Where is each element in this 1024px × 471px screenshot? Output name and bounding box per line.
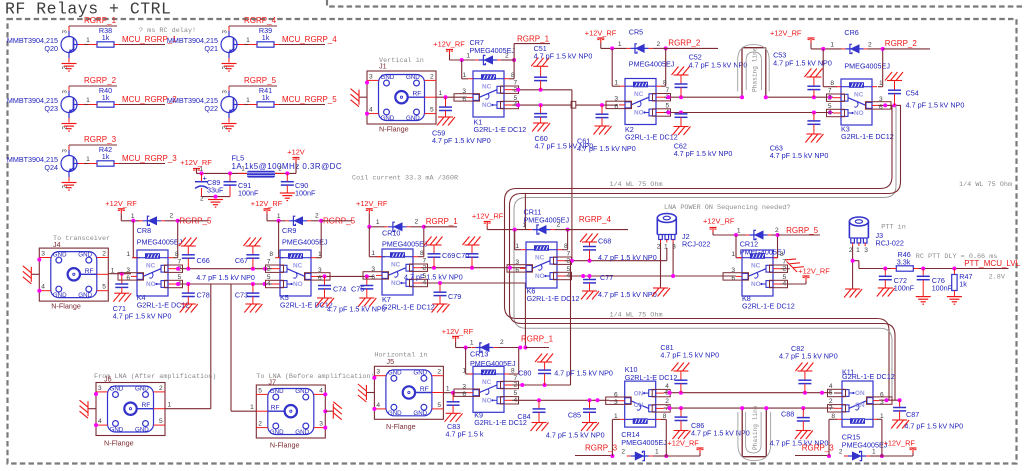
svg-text:5: 5 bbox=[159, 418, 163, 425]
svg-text:ON: ON bbox=[855, 402, 865, 409]
junction bbox=[460, 58, 464, 62]
svg-text:4.7 pF 1.5 kV NP0: 4.7 pF 1.5 kV NP0 bbox=[534, 52, 593, 61]
wire K10 NO to K11 bbox=[664, 392, 832, 394]
wire CR11 to K6 coil bbox=[515, 230, 568, 250]
ground bbox=[222, 64, 237, 72]
svg-text:RF: RF bbox=[85, 268, 94, 275]
junction bbox=[588, 259, 592, 263]
net label RGRP_3 bbox=[795, 444, 834, 456]
svg-text:4.7 pF 1.5 kV NP0: 4.7 pF 1.5 kV NP0 bbox=[554, 369, 613, 378]
svg-text:4.7 pF 1.5 kV NP0: 4.7 pF 1.5 kV NP0 bbox=[904, 422, 963, 431]
svg-text:PMEG4005EJ: PMEG4005EJ bbox=[382, 240, 428, 249]
svg-text:C70: C70 bbox=[456, 251, 469, 260]
diode CR10 bbox=[376, 219, 428, 249]
svg-text:2: 2 bbox=[657, 41, 661, 48]
svg-text:5: 5 bbox=[258, 387, 262, 394]
svg-text:GND: GND bbox=[381, 74, 395, 81]
capacitor C67 bbox=[235, 238, 262, 269]
svg-text:1: 1 bbox=[515, 243, 519, 250]
wire K5 common to K7 bbox=[317, 275, 374, 277]
svg-text:1: 1 bbox=[86, 37, 90, 44]
wire RGRP_1 row1 bbox=[514, 44, 550, 60]
resistor R46 bbox=[891, 250, 919, 271]
svg-text:+12V_RF: +12V_RF bbox=[884, 439, 916, 448]
relay K4 bbox=[118, 250, 189, 310]
title: RF Relays + CTRL bbox=[5, 0, 171, 19]
diode CR9 bbox=[277, 213, 328, 247]
relay K2 bbox=[606, 79, 678, 142]
junction bbox=[898, 398, 902, 402]
wire K6 NC to J2 bbox=[565, 248, 667, 261]
svg-text:NO: NO bbox=[146, 281, 156, 288]
relay K5 bbox=[266, 250, 333, 310]
svg-text:NC: NC bbox=[482, 84, 492, 91]
svg-text:GND: GND bbox=[388, 370, 402, 377]
ground bbox=[532, 123, 550, 132]
junction bbox=[539, 103, 543, 107]
wire CR9 to K5 coil bbox=[279, 221, 322, 258]
note: Vertical in bbox=[379, 57, 424, 65]
net label RGRP_3 bbox=[575, 444, 618, 456]
power flag +12V_RF bbox=[667, 439, 703, 454]
svg-text:4: 4 bbox=[319, 387, 323, 394]
ground bbox=[437, 117, 455, 126]
svg-text:3: 3 bbox=[371, 266, 375, 273]
svg-text:2: 2 bbox=[415, 219, 419, 226]
relay K8 bbox=[723, 250, 795, 311]
net label RGRP_1 bbox=[517, 35, 550, 44]
svg-text:4.7 pF 1.5 kV NP0: 4.7 pF 1.5 kV NP0 bbox=[598, 290, 657, 299]
junction bbox=[734, 233, 738, 237]
wire J6 RF up bbox=[165, 408, 211, 410]
net label MCU_RGRP_2 bbox=[122, 95, 177, 104]
power flag +12V_RF bbox=[884, 439, 917, 454]
junction bbox=[596, 398, 600, 402]
net label RGRP_5 bbox=[778, 226, 821, 235]
svg-text:C68: C68 bbox=[598, 237, 611, 246]
junction bbox=[228, 171, 232, 175]
svg-text:6: 6 bbox=[731, 275, 735, 282]
svg-text:1: 1 bbox=[86, 156, 90, 163]
net label RGRP_2 bbox=[883, 39, 930, 49]
svg-text:C79: C79 bbox=[448, 292, 461, 301]
svg-text:NC: NC bbox=[482, 379, 492, 386]
svg-text:8: 8 bbox=[511, 368, 515, 375]
svg-text:CR6: CR6 bbox=[844, 28, 858, 37]
svg-text:GND: GND bbox=[78, 251, 92, 258]
junction bbox=[893, 103, 897, 107]
svg-text:ON: ON bbox=[634, 402, 644, 409]
junction bbox=[319, 219, 323, 223]
wire K7 NO down to row3 bbox=[421, 283, 525, 348]
junction bbox=[176, 282, 180, 286]
net label RGRP_5 bbox=[178, 217, 212, 226]
svg-text:CR10: CR10 bbox=[382, 229, 400, 238]
svg-text:1: 1 bbox=[664, 244, 668, 251]
svg-text:6: 6 bbox=[515, 267, 519, 274]
svg-text:1: 1 bbox=[199, 166, 203, 173]
svg-text:1: 1 bbox=[126, 251, 130, 258]
note: PTT in bbox=[881, 224, 905, 232]
svg-text:2: 2 bbox=[267, 265, 271, 272]
svg-text:+12V_RF: +12V_RF bbox=[798, 267, 830, 276]
wire base bbox=[84, 156, 90, 164]
note: Phasing line (vertical) bbox=[752, 405, 759, 450]
power flag +12V_RF bbox=[433, 40, 465, 55]
junction bbox=[176, 219, 180, 223]
svg-text:1: 1 bbox=[731, 251, 735, 258]
svg-text:2: 2 bbox=[839, 449, 843, 456]
svg-text:6: 6 bbox=[462, 96, 466, 103]
junction bbox=[610, 46, 614, 50]
svg-text:GND: GND bbox=[53, 292, 67, 299]
svg-text:1: 1 bbox=[376, 219, 380, 226]
svg-text:1/4 WL 75 Ohm: 1/4 WL 75 Ohm bbox=[959, 181, 1012, 189]
svg-text:NO: NO bbox=[482, 102, 492, 109]
ground bbox=[316, 298, 334, 307]
svg-text:2: 2 bbox=[159, 385, 163, 392]
note: 1/4 WL 75 Ohm bbox=[610, 181, 663, 189]
svg-text:3: 3 bbox=[222, 90, 229, 94]
svg-text:? ms RC delay!: ? ms RC delay! bbox=[139, 27, 196, 35]
svg-text:NO: NO bbox=[751, 281, 761, 288]
wire K9 NO to K10 common bbox=[512, 399, 609, 401]
capacitor C61 bbox=[577, 105, 636, 153]
svg-text:1: 1 bbox=[371, 250, 375, 257]
relay K10 bbox=[606, 365, 678, 427]
note: Phasing line (vertical) bbox=[752, 47, 759, 92]
phasing line stub bbox=[742, 48, 766, 97]
junction bbox=[671, 274, 675, 278]
ground bbox=[891, 420, 909, 429]
wire +12V_RF to CR8 bbox=[121, 214, 139, 221]
transistor Q23 bbox=[7, 87, 84, 130]
svg-text:8: 8 bbox=[564, 243, 568, 250]
svg-text:J1: J1 bbox=[379, 62, 387, 71]
junction bbox=[263, 267, 267, 271]
junction bbox=[600, 103, 604, 107]
svg-text:5: 5 bbox=[430, 107, 434, 114]
wire +12V_RF to CR6 bbox=[811, 43, 842, 49]
junction bbox=[668, 406, 672, 410]
svg-text:2: 2 bbox=[621, 449, 625, 456]
svg-text:1: 1 bbox=[618, 41, 622, 48]
svg-text:NC: NC bbox=[854, 92, 864, 99]
svg-text:1/4 WL 75 Ohm: 1/4 WL 75 Ohm bbox=[610, 181, 663, 189]
svg-text:1k: 1k bbox=[262, 33, 270, 42]
net label RGRP_1 bbox=[424, 217, 458, 227]
wire to MCU_RGRP_2 bbox=[119, 104, 165, 106]
wire K10 NC to phasing bbox=[664, 407, 743, 409]
note: RC PTT DLY = 0.66 ms bbox=[916, 253, 998, 261]
svg-text:4.7 pF 1.5 kV NP0: 4.7 pF 1.5 kV NP0 bbox=[546, 431, 605, 440]
wire CR13 to K9 coil bbox=[466, 348, 519, 375]
wire +12V_RF to CR9 bbox=[267, 214, 285, 221]
junction bbox=[881, 47, 885, 51]
net tie bbox=[571, 101, 602, 108]
svg-text:1: 1 bbox=[856, 247, 860, 254]
svg-text:1: 1 bbox=[131, 213, 135, 220]
junction bbox=[131, 219, 135, 223]
wire +12V_RF to CR12 bbox=[713, 233, 746, 236]
capacitor C84 bbox=[517, 400, 545, 422]
junction bbox=[523, 346, 527, 350]
svg-text:8: 8 bbox=[511, 72, 515, 79]
capacitor C66 bbox=[179, 238, 210, 269]
svg-text:4.7 pF 1.5 kV NP0: 4.7 pF 1.5 kV NP0 bbox=[577, 144, 636, 153]
diode CR6 bbox=[830, 28, 890, 71]
ground bbox=[795, 431, 813, 440]
junction bbox=[851, 259, 855, 263]
svg-text:GND: GND bbox=[413, 410, 427, 417]
svg-text:2: 2 bbox=[775, 227, 779, 234]
wire CR5 to K2 coil bbox=[612, 48, 620, 86]
svg-text:PMEG4005EJ: PMEG4005EJ bbox=[629, 60, 675, 69]
svg-text:RCJ-022: RCJ-022 bbox=[682, 240, 710, 249]
svg-text:3: 3 bbox=[126, 267, 130, 274]
capacitor C83 bbox=[446, 393, 484, 439]
junction bbox=[516, 88, 520, 92]
wire base bbox=[244, 97, 250, 105]
junction bbox=[880, 454, 884, 458]
svg-text:1k: 1k bbox=[102, 93, 110, 102]
note: Horizontal in bbox=[374, 352, 427, 360]
connector J7 bbox=[250, 378, 342, 450]
svg-text:PMEG4005EJ: PMEG4005EJ bbox=[524, 215, 570, 224]
svg-text:GND: GND bbox=[135, 426, 149, 433]
junction bbox=[820, 391, 824, 395]
svg-text:GND: GND bbox=[295, 388, 309, 395]
svg-text:3: 3 bbox=[318, 267, 322, 274]
junction bbox=[764, 406, 768, 410]
note: To LNA (Before amplification) bbox=[256, 373, 374, 381]
power flag +12V_RF bbox=[770, 29, 815, 44]
svg-text:N-Flange: N-Flange bbox=[270, 441, 300, 450]
net label RGRP_1 bbox=[521, 335, 554, 348]
svg-text:C66: C66 bbox=[197, 256, 210, 265]
junction bbox=[821, 47, 825, 51]
svg-text:NO: NO bbox=[854, 110, 864, 117]
wire K10 common stub bbox=[609, 400, 618, 402]
junction bbox=[679, 391, 683, 395]
svg-text:Q24: Q24 bbox=[44, 163, 58, 172]
net label RGRP_2 bbox=[666, 39, 718, 49]
net label RGRP_2 bbox=[84, 76, 117, 85]
svg-text:1A 1k5@100MHz 0.3R@DC: 1A 1k5@100MHz 0.3R@DC bbox=[232, 162, 343, 171]
svg-text:NC: NC bbox=[146, 263, 156, 270]
svg-text:1: 1 bbox=[655, 449, 659, 456]
svg-text:GND: GND bbox=[388, 410, 402, 417]
wire K1 NC contact bbox=[512, 89, 572, 91]
svg-text:C77: C77 bbox=[600, 273, 613, 282]
wire K2 NO to K3 NO bbox=[664, 112, 833, 114]
capacitor C59 bbox=[432, 97, 491, 145]
svg-text:C73: C73 bbox=[235, 291, 248, 300]
ground bbox=[180, 304, 198, 313]
wire base bbox=[84, 37, 90, 45]
svg-text:8: 8 bbox=[830, 80, 834, 87]
svg-text:ON: ON bbox=[855, 390, 865, 397]
junction bbox=[764, 95, 768, 99]
junction bbox=[921, 267, 925, 271]
junction bbox=[812, 95, 816, 99]
svg-text:2.8V: 2.8V bbox=[989, 274, 1006, 282]
net label RGRP_4 bbox=[244, 16, 277, 25]
svg-text:1: 1 bbox=[872, 449, 876, 456]
svg-text:4.7 pF 1.5 kV NP0: 4.7 pF 1.5 kV NP0 bbox=[906, 101, 965, 110]
svg-text:PMEG4005EJ: PMEG4005EJ bbox=[137, 238, 183, 247]
resistor R40 bbox=[89, 86, 120, 107]
svg-text:2: 2 bbox=[278, 166, 282, 173]
power flag +12V_RF bbox=[105, 199, 137, 214]
junction bbox=[251, 267, 255, 271]
svg-text:+12V_RF: +12V_RF bbox=[356, 199, 388, 208]
svg-text:100nF: 100nF bbox=[932, 284, 953, 293]
svg-text:3: 3 bbox=[98, 385, 102, 392]
svg-text:2: 2 bbox=[102, 251, 106, 258]
svg-text:C84: C84 bbox=[517, 412, 530, 421]
ground bbox=[62, 64, 77, 72]
svg-text:C54: C54 bbox=[906, 89, 919, 98]
svg-text:From LNA (After amplification): From LNA (After amplification) bbox=[94, 373, 216, 381]
svg-text:CR13: CR13 bbox=[470, 350, 488, 359]
svg-text:+12V: +12V bbox=[287, 148, 305, 157]
svg-text:NO: NO bbox=[482, 398, 492, 405]
svg-text:+12V_RF: +12V_RF bbox=[442, 327, 474, 336]
junction bbox=[952, 267, 956, 271]
svg-text:RGRP_2: RGRP_2 bbox=[668, 39, 701, 48]
svg-text:1k: 1k bbox=[102, 152, 110, 161]
ground bbox=[673, 431, 691, 440]
svg-text:1: 1 bbox=[241, 166, 245, 173]
wire base bbox=[244, 37, 250, 45]
wire K2 NC to phasing bbox=[664, 96, 742, 98]
svg-text:4.7 pF 1.5 kV NP0: 4.7 pF 1.5 kV NP0 bbox=[691, 429, 750, 438]
wire K11 common to line bbox=[879, 399, 901, 401]
svg-text:NC: NC bbox=[751, 263, 761, 270]
svg-text:NC: NC bbox=[293, 263, 303, 270]
net label RGRP_4 bbox=[568, 215, 628, 230]
wire K3 common bbox=[878, 104, 901, 106]
capacitor C81 bbox=[660, 343, 719, 393]
note: 1/4 WL 75 Ohm bbox=[959, 181, 1012, 189]
svg-text:G2RL-1-E DC12: G2RL-1-E DC12 bbox=[382, 303, 435, 312]
capacitor C62 bbox=[674, 113, 733, 159]
svg-text:4: 4 bbox=[376, 402, 380, 409]
svg-text:C88: C88 bbox=[781, 410, 794, 419]
ground bbox=[445, 413, 463, 422]
svg-text:3: 3 bbox=[879, 96, 883, 103]
svg-text:G2RL-1-E DC12: G2RL-1-E DC12 bbox=[742, 302, 795, 311]
wire K8 NC to ground bbox=[781, 268, 790, 270]
junction bbox=[438, 281, 442, 285]
capacitor C80 bbox=[518, 354, 613, 386]
wire +12V drop bbox=[295, 163, 297, 174]
note: 1/4 WL 75 Ohm bbox=[610, 312, 663, 320]
ground bbox=[432, 304, 450, 313]
junction bbox=[885, 398, 889, 402]
wire K4 NO to K5 bbox=[176, 283, 272, 285]
svg-text:2: 2 bbox=[500, 339, 504, 346]
svg-text:To transceiver: To transceiver bbox=[53, 235, 110, 243]
svg-text:4: 4 bbox=[41, 284, 45, 291]
svg-text:+12V_RF: +12V_RF bbox=[251, 199, 283, 208]
svg-text:RGRP_2: RGRP_2 bbox=[885, 39, 918, 48]
wire J4 RF to K4 bbox=[108, 273, 131, 275]
capacitor C54 bbox=[885, 72, 964, 110]
junction bbox=[679, 111, 683, 115]
capacitor C76 bbox=[917, 269, 953, 297]
svg-text:NO: NO bbox=[391, 280, 401, 287]
wire collector net RGRP_3 bbox=[69, 144, 117, 147]
wire phasing to K11 NC bbox=[742, 407, 834, 409]
svg-text:5: 5 bbox=[437, 402, 441, 409]
svg-text:CR8: CR8 bbox=[137, 226, 151, 235]
ground bbox=[62, 183, 77, 191]
junction bbox=[664, 454, 668, 458]
wire K8 NO to +12V_RF bbox=[781, 281, 806, 284]
junction bbox=[740, 406, 744, 410]
connector J3 bbox=[849, 217, 904, 254]
wire collector net RGRP_2 bbox=[69, 85, 117, 88]
transistor Q20 bbox=[7, 27, 84, 70]
wire phasing to K3 NC bbox=[766, 96, 833, 98]
svg-text:6: 6 bbox=[462, 391, 466, 398]
svg-text:2: 2 bbox=[258, 421, 262, 428]
svg-text:4: 4 bbox=[828, 110, 832, 117]
svg-text:1: 1 bbox=[737, 228, 741, 235]
svg-text:C85: C85 bbox=[568, 411, 581, 420]
junction bbox=[512, 58, 516, 62]
svg-text:+12V_RF: +12V_RF bbox=[433, 40, 465, 49]
wire K6 NO to K8 common bbox=[565, 275, 736, 277]
svg-text:C75: C75 bbox=[351, 285, 364, 294]
svg-text:MCU_RGRP_5: MCU_RGRP_5 bbox=[282, 95, 337, 104]
ground bbox=[652, 288, 670, 297]
svg-text:Q23: Q23 bbox=[44, 104, 58, 113]
svg-text:RCJ-022: RCJ-022 bbox=[876, 239, 904, 248]
svg-text:6: 6 bbox=[614, 392, 618, 399]
phasing line stub bbox=[742, 408, 766, 457]
power flag +12V_RF bbox=[356, 199, 388, 214]
junction bbox=[186, 267, 190, 271]
svg-text:RGRP_2: RGRP_2 bbox=[84, 76, 117, 85]
svg-text:+12V_RF: +12V_RF bbox=[667, 439, 699, 448]
svg-text:GND: GND bbox=[406, 115, 420, 122]
wire CR12 to K8 coil bbox=[736, 235, 778, 258]
junction bbox=[883, 267, 887, 271]
svg-text:3: 3 bbox=[222, 30, 229, 34]
svg-text:5: 5 bbox=[829, 390, 833, 397]
capacitor C78 bbox=[182, 284, 210, 304]
capacitor C91 bbox=[224, 173, 259, 197]
note: From LNA (After amplification) bbox=[94, 373, 216, 381]
svg-text:4.7 pF 1.5 kV NP0: 4.7 pF 1.5 kV NP0 bbox=[674, 149, 733, 158]
power flag +12V_RF bbox=[798, 267, 830, 282]
capacitor C53 bbox=[773, 51, 832, 98]
ground bbox=[916, 297, 931, 305]
capacitor C71 bbox=[113, 274, 172, 321]
svg-text:6: 6 bbox=[126, 275, 130, 282]
junction bbox=[610, 454, 614, 458]
svg-text:3: 3 bbox=[319, 421, 323, 428]
svg-text:2: 2 bbox=[557, 222, 561, 229]
svg-text:NO: NO bbox=[634, 110, 644, 117]
wire CR10 to K7 coil bbox=[369, 227, 424, 257]
ground bbox=[947, 297, 962, 305]
ground bbox=[0, 0, 1, 1]
capacitor C51 bbox=[531, 44, 592, 90]
